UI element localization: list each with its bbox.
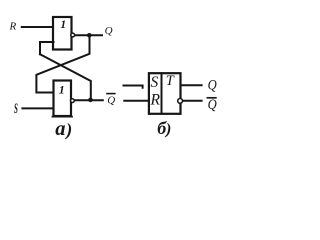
svg-text:): ) (164, 121, 171, 138)
wire Q-bar feedback: up, diagonal, up to DD1 lower input (40, 54, 91, 100)
gate DD1 (top OR-NOT "1") body (53, 17, 72, 50)
inversion bubble DD1 output (71, 33, 75, 37)
wire Q feedback: down, diagonal, down to DD2 upper input (36, 35, 89, 92)
svg-text:): ) (64, 120, 72, 141)
wire input to S (124, 86, 143, 88)
flip-flop U1 S/R column divider (161, 73, 163, 114)
wire DD2 output to Q-bar (75, 99, 103, 101)
svg-text:R: R (9, 21, 17, 33)
output Q-bar overbar (107, 93, 115, 95)
wire R to DD1 upper input (22, 26, 53, 28)
wire DD1 output to Q (75, 34, 102, 36)
gate DD2 (bottom OR-NOT "1") body (54, 81, 72, 117)
inversion bubble U1 Q-bar output (178, 99, 183, 104)
svg-text:Q: Q (208, 77, 217, 93)
svg-text:Q: Q (105, 25, 113, 37)
svg-text:Q: Q (107, 94, 115, 106)
flip-flop U1 body (149, 73, 181, 114)
svg-text:T: T (166, 73, 175, 89)
wire feedback into DD1 lower input (40, 42, 54, 54)
wire S to DD2 lower input (22, 107, 53, 109)
svg-text:а: а (55, 118, 65, 140)
svg-text:S: S (14, 100, 18, 117)
inversion bubble DD2 output (71, 99, 75, 103)
wire output Q (182, 84, 202, 86)
node Q junction dot (87, 33, 92, 38)
svg-text:R: R (150, 92, 161, 109)
svg-text:S: S (151, 74, 159, 91)
svg-text:1: 1 (59, 83, 65, 97)
wire output Q-bar (183, 100, 202, 102)
wire input to R (124, 100, 148, 102)
svg-text:1: 1 (60, 19, 66, 31)
node Q-bar junction dot (88, 98, 93, 103)
output Q-bar overbar (207, 97, 215, 99)
